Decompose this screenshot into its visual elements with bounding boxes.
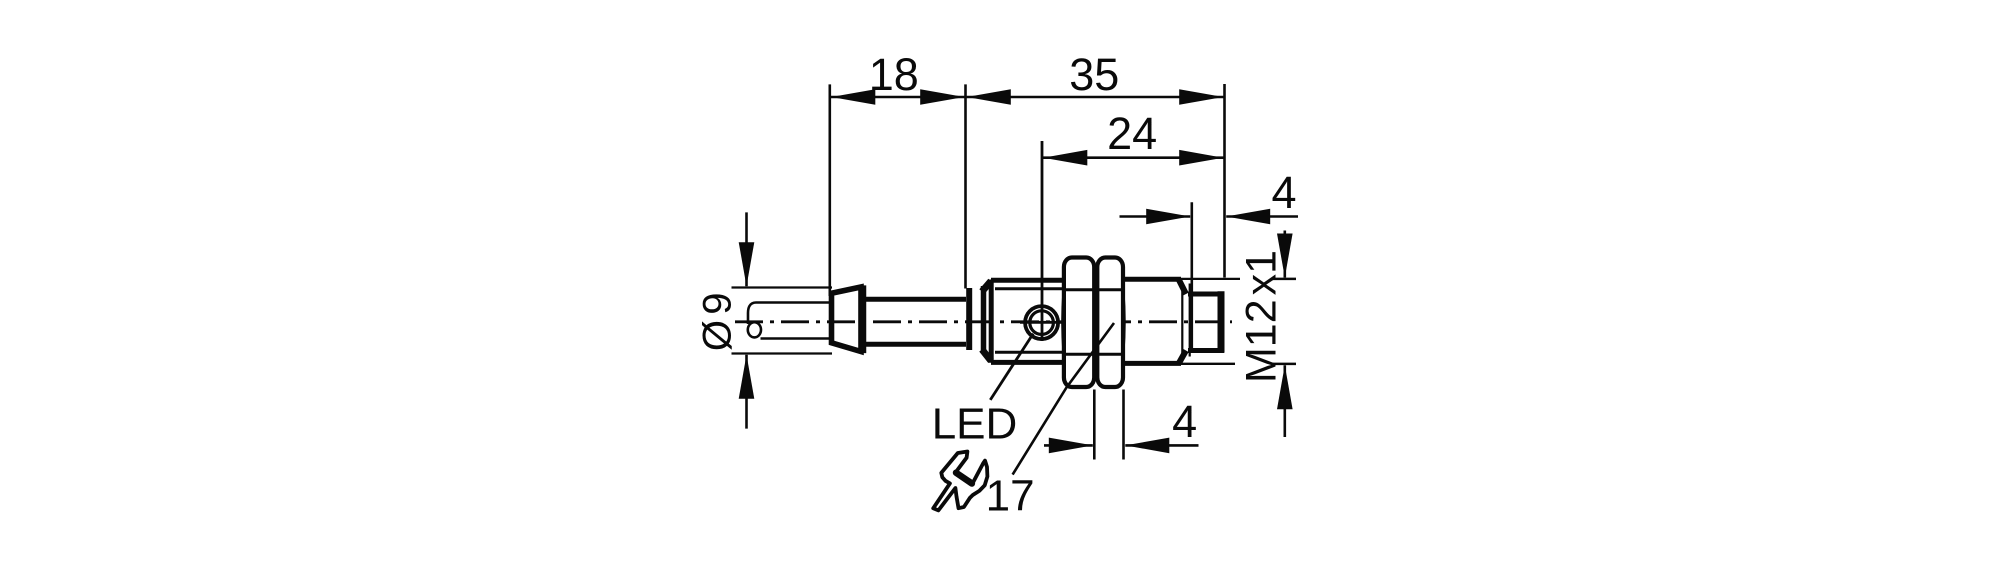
svg-text:4: 4 — [1271, 167, 1296, 218]
svg-text:18: 18 — [869, 49, 919, 100]
svg-text:17: 17 — [986, 472, 1035, 521]
svg-text:Ø9: Ø9 — [696, 287, 740, 351]
svg-text:4: 4 — [1172, 396, 1197, 447]
svg-text:M12x1: M12x1 — [1238, 250, 1286, 383]
svg-text:LED: LED — [932, 400, 1018, 449]
svg-text:24: 24 — [1107, 108, 1157, 159]
svg-text:35: 35 — [1069, 49, 1119, 100]
